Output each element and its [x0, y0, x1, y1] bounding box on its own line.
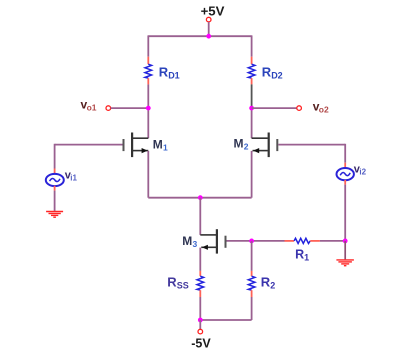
- wire tail stub: [199, 198, 201, 235]
- resistor RSS: [197, 276, 204, 290]
- value label RD2: [262, 64, 283, 80]
- wire vi2 vertical: [344, 144, 346, 163]
- wire RSS to -5V node: [199, 297, 201, 320]
- wire M3 source down: [199, 248, 201, 271]
- wire RD1 to vo1 node: [147, 84, 149, 138]
- pin RD2 top: [251, 57, 253, 64]
- junction vo2: [249, 106, 254, 111]
- junction M3 gate R2: [249, 239, 254, 244]
- resistor R1: [294, 238, 310, 243]
- wire to right ground: [344, 241, 346, 260]
- net label vi2: [354, 163, 367, 176]
- source vi2: [337, 168, 354, 180]
- value label RSS: [167, 275, 188, 291]
- wire vi2 to R1 node: [344, 185, 346, 241]
- svg-text:SS: SS: [177, 281, 189, 291]
- net label vi1: [65, 169, 78, 182]
- svg-text:o1: o1: [87, 102, 97, 112]
- net label vo2: [313, 100, 329, 115]
- value label M3: [182, 234, 197, 249]
- wire bottom bus: [200, 319, 251, 321]
- svg-text:M: M: [234, 136, 244, 150]
- pin R1 right: [310, 240, 320, 242]
- pin RD1 top: [147, 57, 149, 64]
- value label RD1: [159, 64, 180, 80]
- wire -5V stub: [199, 320, 201, 329]
- transistor M2: [252, 133, 278, 158]
- node vo1 terminal: [106, 106, 111, 111]
- junction R1 vi2 ground: [343, 239, 348, 244]
- svg-text:1: 1: [163, 143, 168, 153]
- pin RSS top: [199, 271, 201, 276]
- resistor RD2: [248, 64, 255, 78]
- junction vo1: [146, 106, 151, 111]
- svg-text:i2: i2: [359, 167, 366, 176]
- wire RD1 upper: [147, 35, 149, 56]
- wire vo2 node to M2 drain: [251, 108, 253, 138]
- ground left: [46, 212, 63, 218]
- wire vi1 to ground: [54, 191, 56, 211]
- ground right: [336, 260, 354, 266]
- pin RD1 bottom: [147, 78, 149, 84]
- node vo2 terminal: [297, 106, 302, 111]
- wire M1 gate: [55, 144, 123, 146]
- wire top bus: [148, 35, 251, 37]
- value label R2: [261, 275, 275, 291]
- transistor M3: [200, 229, 225, 253]
- svg-text:o2: o2: [319, 105, 329, 115]
- node +5V terminal: [206, 17, 211, 22]
- svg-text:3: 3: [193, 239, 198, 249]
- value label M2: [234, 136, 249, 151]
- wire M1 source down: [147, 151, 149, 198]
- wire R1 to vi2 node: [320, 240, 345, 242]
- svg-text:D1: D1: [168, 71, 180, 81]
- junction sources bus: [198, 195, 203, 200]
- pin vi1 top: [54, 169, 56, 175]
- pin R2 top: [251, 271, 253, 276]
- svg-text:D2: D2: [271, 71, 283, 81]
- net label vo1: [81, 97, 97, 112]
- wire M2 gate: [278, 144, 345, 146]
- value label M1: [153, 138, 168, 153]
- pin R2 bottom: [251, 290, 253, 297]
- value label R1: [295, 247, 309, 262]
- wire vi1 vertical: [54, 144, 56, 169]
- junction bottom bus: [198, 318, 203, 323]
- svg-text:-5V: -5V: [191, 337, 211, 351]
- resistor R2: [248, 276, 255, 290]
- transistor M1: [124, 133, 149, 158]
- svg-text:2: 2: [270, 281, 275, 291]
- svg-text:M: M: [153, 138, 163, 152]
- svg-text:M: M: [182, 234, 192, 248]
- resistor RD1: [145, 64, 152, 78]
- wire +5V stub: [208, 22, 210, 36]
- wire sources bus: [148, 197, 251, 199]
- svg-text:R: R: [295, 247, 304, 261]
- source vi1: [46, 174, 64, 186]
- wire vo1: [111, 107, 149, 109]
- wire R2 branch: [251, 241, 253, 271]
- svg-text:1: 1: [304, 252, 309, 262]
- wire M3 gate: [227, 240, 285, 242]
- pin vi1 bottom: [54, 186, 56, 191]
- node -5V terminal: [198, 329, 203, 334]
- pin RSS bottom: [199, 290, 201, 297]
- svg-text:2: 2: [244, 141, 249, 151]
- pin RD2 bottom: [251, 78, 253, 84]
- svg-text:+5V: +5V: [201, 3, 225, 18]
- wire RD2 to vo2 node dark: [251, 84, 253, 108]
- wire RD2 upper: [251, 35, 253, 56]
- pin vi2 top: [344, 163, 346, 169]
- junction top bus: [206, 34, 211, 39]
- wire vo2: [252, 107, 297, 109]
- pin R1 left: [285, 240, 295, 242]
- wire R2 to bottom bus: [251, 297, 253, 320]
- wire M2 source down: [251, 151, 253, 198]
- pin vi2 bottom: [344, 180, 346, 185]
- svg-text:i1: i1: [70, 173, 77, 182]
